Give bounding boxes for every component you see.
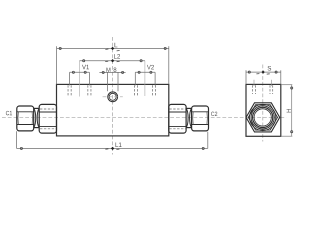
dimension S right end dot	[275, 71, 277, 73]
dimension L2 left tick	[105, 60, 108, 62]
dimension L2 right end dot	[140, 60, 142, 62]
top hole V1b	[88, 85, 91, 96]
vertical centerline end view	[262, 65, 264, 142]
dimension M8	[99, 72, 125, 91]
dimension L center diamond	[111, 47, 114, 50]
valve body (side view)	[57, 84, 169, 135]
dimension V1 right end dot	[84, 71, 86, 73]
right inner fitting	[169, 104, 186, 133]
dimension L2 center diamond	[111, 59, 114, 62]
label L	[115, 43, 118, 47]
dimension V2 left end dot	[138, 71, 140, 73]
dimension V2	[135, 72, 155, 85]
label L2	[114, 54, 120, 59]
right neck	[186, 108, 192, 127]
end view hole left	[253, 80, 256, 94]
label L1	[116, 143, 122, 147]
left neck	[34, 108, 40, 127]
dimension H	[281, 85, 293, 137]
dimension L2 left end dot	[83, 60, 85, 62]
dimension S	[246, 70, 281, 84]
dimension L left end dot	[59, 47, 61, 49]
main vertical centerline side view	[112, 37, 114, 155]
dimension S left end dot	[248, 71, 250, 73]
dimension L left tick	[105, 48, 108, 50]
dimension V2 right end dot	[150, 71, 152, 73]
label V1	[82, 65, 89, 69]
dimension V1	[70, 72, 90, 85]
top hole V2a	[135, 85, 138, 96]
dimension L	[57, 46, 169, 84]
dimension L right tick	[117, 50, 120, 52]
label H (rotated)	[287, 109, 291, 112]
M8 hole circle	[108, 92, 118, 102]
dimension M8 right end dot	[122, 71, 124, 73]
top hole V2b	[152, 85, 155, 96]
dimension V1 left end dot	[72, 71, 74, 73]
main horizontal centerline	[2, 117, 286, 119]
end view chamfer circle	[251, 106, 274, 129]
end view block	[246, 84, 281, 136]
dimension L1	[17, 131, 208, 148]
dimension L1 right tick	[116, 148, 119, 150]
end view inscribed circle	[250, 104, 276, 130]
dimension L1 left end dot	[20, 147, 22, 149]
label V2	[147, 65, 154, 70]
dimension L1 right end dot	[202, 147, 204, 149]
M8 circle horizontal centerline	[103, 96, 123, 98]
label M8	[106, 68, 110, 72]
dimension M8 left end dot	[102, 71, 104, 73]
label S	[268, 66, 272, 71]
dimension S center diamond	[261, 70, 264, 73]
left inner fitting	[39, 104, 56, 133]
left outer hex nut	[17, 106, 34, 131]
port label C1	[6, 111, 12, 115]
end view hex chamfer	[248, 105, 277, 130]
end view hole right	[270, 80, 273, 94]
port label C2	[211, 112, 217, 116]
top hole V1a	[68, 85, 71, 96]
end view thread circles	[253, 107, 273, 127]
dimension H top end dot	[291, 87, 293, 89]
right outer hex nut	[192, 106, 209, 131]
end view hex nut outer	[246, 103, 280, 132]
dimension L1 left tick	[105, 148, 108, 150]
dimension S left tick	[256, 73, 259, 75]
dimension H bottom end dot	[291, 131, 293, 133]
dimension L1 center diamond	[111, 147, 114, 150]
dimension L2	[80, 61, 145, 97]
dimension L right end dot	[164, 47, 166, 49]
dimension S right tick	[267, 73, 270, 75]
dimension L2 right tick	[117, 60, 120, 62]
